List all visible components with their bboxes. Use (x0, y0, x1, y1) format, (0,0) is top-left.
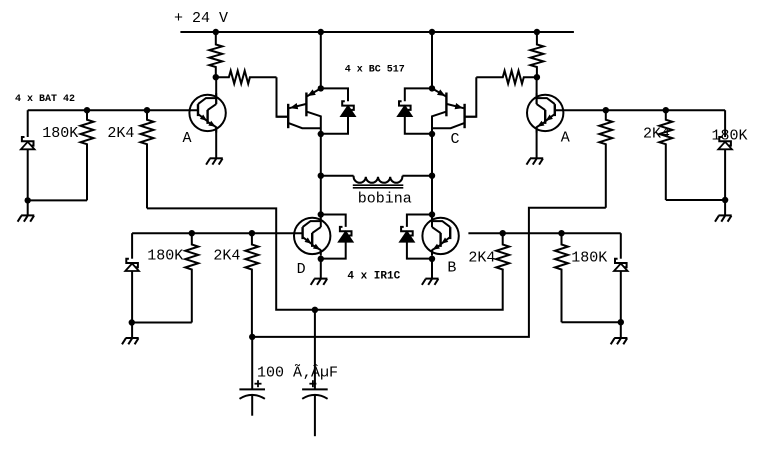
svg-text:4 x BAT 42: 4 x BAT 42 (15, 94, 75, 105)
wire right A collector (536, 77, 538, 104)
node bridge-left / transistor D collector (318, 211, 324, 217)
node diode D7 / ground wire (129, 319, 135, 325)
wire D5 ground to R5 bottom (28, 199, 87, 201)
wire upper-right bias rail (555, 109, 725, 111)
node 180K top-left (84, 107, 90, 113)
svg-text:100 Ã‚ÂµF: 100 Ã‚ÂµF (257, 364, 338, 382)
node 2K4 top-right (663, 107, 669, 113)
resistor R2 (base drive, left) (216, 71, 277, 84)
node diode D8 / ground wire (618, 319, 624, 325)
node 180K lower-right (558, 230, 564, 236)
inductor core lines (353, 184, 404, 186)
wire lower-right base rail (468, 232, 620, 234)
resistor R4 (base drive, right) (476, 71, 537, 84)
diode D4 flyback at B (407, 215, 432, 227)
svg-text:B: B (447, 260, 456, 277)
node 2K4 lower-left (249, 230, 255, 236)
svg-text:C: C (451, 131, 460, 148)
diode D8 BAT42 lower-right (620, 233, 622, 259)
transistor A upper-right NPN darlington (527, 95, 563, 131)
ground below transistor B (425, 278, 438, 280)
svg-text:+ 24 V: + 24 V (174, 10, 228, 27)
node 2K4 lower-right (500, 230, 506, 236)
node upper-right darlington emitter (429, 85, 435, 91)
svg-text:2K4: 2K4 (213, 248, 240, 265)
svg-text:bobina: bobina (358, 191, 412, 208)
node R3/R4 junction right (534, 74, 540, 80)
node R7 top-right (603, 107, 609, 113)
plus sign C2 (309, 383, 316, 385)
node transistor D emitter (318, 256, 324, 262)
wire A collector (215, 77, 217, 104)
node upper-left darlington emitter (318, 85, 324, 91)
wire left bridge mid (320, 134, 322, 215)
wire D emitter to ground (320, 259, 322, 279)
transistor A upper-left NPN darlington (189, 95, 225, 131)
inductor bobina (318, 173, 324, 179)
resistor R8 2K4/180K upper-right (659, 110, 672, 200)
wire D7 ground to R9 bottom (132, 322, 192, 324)
ground below D7 (126, 337, 139, 339)
wire cross-coupling R6 to R10 (left to lower-right) (147, 208, 503, 309)
wire D6 ground to R8 bottom (666, 199, 725, 201)
node rail junction bridge-right (429, 29, 435, 35)
transistor upper-left PNP darlington (BC517) (306, 88, 320, 96)
capacitor C1 100uF (251, 337, 253, 390)
wire R4 to Q-C2 base (465, 77, 477, 117)
wire rail to upper-left darlington (320, 32, 322, 88)
node 2K4 top-left (144, 107, 150, 113)
node rail junction left (213, 29, 219, 35)
node capacitor C2 tap (312, 307, 318, 313)
svg-text:180K: 180K (571, 250, 607, 267)
node rail junction right (534, 29, 540, 35)
wire A emitter to ground (215, 127, 217, 159)
ground below D8 (614, 337, 627, 339)
svg-text:D: D (297, 261, 306, 278)
resistor R12 180K lower-right (555, 233, 568, 322)
ground below D5 (21, 214, 34, 216)
diode D2 flyback upper-right (405, 88, 432, 101)
svg-text:2K4: 2K4 (468, 250, 495, 267)
transistor B lower-right NPN darlington (422, 218, 458, 254)
resistor R6 2K4 upper-left (141, 110, 154, 208)
ground below transistor A right (530, 157, 543, 159)
node rail junction bridge-left (318, 29, 324, 35)
svg-text:180K: 180K (712, 128, 748, 145)
diode D3 flyback at D (321, 215, 346, 227)
wire right A emitter to ground (536, 127, 538, 159)
resistor R10 2K4 lower-left (245, 233, 258, 337)
ground below transistor A left (210, 157, 223, 159)
resistor R1 (collector load, left) (209, 32, 222, 77)
ground below transistor D (314, 278, 327, 280)
resistor R11 2K4 lower-right (496, 233, 509, 269)
wire right bridge mid (431, 134, 433, 215)
resistor R5 180K upper-left (81, 110, 94, 200)
diode D1 flyback upper-left (321, 88, 348, 101)
svg-text:4 x BC 517: 4 x BC 517 (345, 65, 405, 76)
ground below D6 (719, 214, 732, 216)
node diode D5 / ground wire (25, 197, 31, 203)
wire R2 to Q-C1 base (277, 77, 289, 117)
node upper-right darlington collector (429, 131, 435, 137)
node upper-left darlington collector (318, 131, 324, 137)
node diode D6 / ground wire (722, 197, 728, 203)
svg-text:2K4: 2K4 (107, 125, 134, 142)
node bridge-right / transistor B collector (429, 211, 435, 217)
wire lower-left base rail (132, 232, 303, 234)
svg-text:A: A (183, 130, 192, 147)
resistor R9 180K lower-left (185, 233, 198, 322)
transistor C upper-right PNP darlington (BC517) (432, 88, 446, 96)
node R1/R2 junction left (213, 74, 219, 80)
diode D6 BAT42 upper-right (724, 110, 726, 137)
wire rail to upper-right darlington (431, 32, 433, 88)
resistor R7 upper-right (unlabeled) (599, 110, 612, 208)
wire D8 ground to R12 bottom (562, 321, 621, 323)
node capacitor C1 tap (249, 334, 255, 340)
wire +24V top rail (180, 31, 574, 33)
node 180K lower-left (189, 230, 195, 236)
plus sign C1 (255, 383, 262, 385)
svg-text:2K4: 2K4 (643, 126, 670, 143)
wire upper-left bias rail (28, 109, 198, 111)
resistor R3 (collector load, right) (530, 32, 543, 77)
svg-text:180K: 180K (147, 248, 183, 265)
transistor D lower-left NPN darlington (294, 218, 330, 254)
capacitor C2 100uF (314, 310, 316, 390)
wire B emitter to ground (431, 259, 433, 279)
diode D5 BAT42 upper-left (27, 110, 29, 137)
svg-text:A: A (561, 130, 570, 147)
wire cross-coupling R7 to lower-left (right to left) (252, 208, 606, 337)
node transistor B emitter (429, 256, 435, 262)
diode D7 BAT42 lower-left (131, 233, 133, 259)
svg-text:4 x IR1C: 4 x IR1C (347, 271, 400, 283)
svg-text:180K: 180K (42, 125, 78, 142)
